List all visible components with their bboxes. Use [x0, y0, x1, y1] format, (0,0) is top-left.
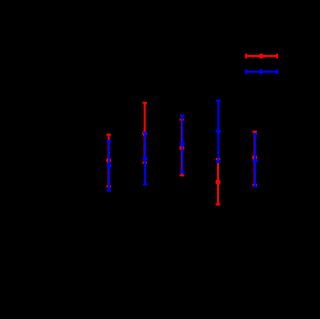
group 4 blue errorbar [216, 101, 221, 162]
group 2 red errorbar [142, 103, 147, 163]
LEGEND [246, 54, 277, 75]
group 3 blue errorbar [180, 116, 185, 173]
group 3 red errorbar [180, 120, 185, 176]
group 1 red errorbar [106, 135, 111, 187]
BLUE SERIES (drawn on top) [107, 101, 258, 191]
group 5 blue errorbar [253, 134, 258, 186]
group 4 red errorbar [216, 159, 221, 205]
group 1 blue errorbar [107, 141, 112, 191]
group 5 red errorbar [252, 132, 257, 185]
legend red entry [246, 54, 277, 59]
legend blue entry [246, 69, 277, 74]
group 2 blue errorbar [143, 133, 148, 185]
RED SERIES (drawn first) [106, 103, 257, 205]
